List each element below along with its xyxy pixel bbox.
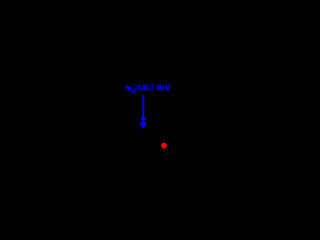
svg-text:=140.7: =140.7 [134,82,154,92]
svg-text:V: V [165,82,170,92]
svg-text:Me: Me [156,82,165,92]
svg-text:m: m [125,83,131,93]
